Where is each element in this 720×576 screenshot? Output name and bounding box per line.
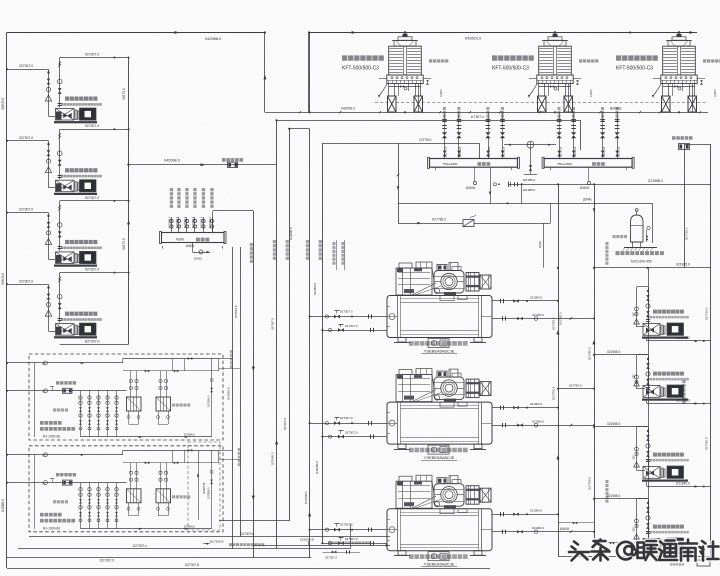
chiller CH-2 legs xyxy=(398,444,406,449)
HXU-1 bottom collect line xyxy=(81,436,212,438)
pump CHWP-1 discharge header xyxy=(646,339,648,341)
chiller CH-2 compressor/motor top assembly xyxy=(396,375,432,402)
cooling water pump CWP-1 branch xyxy=(7,69,49,71)
chilled pump suction manifold xyxy=(648,268,650,538)
pump CWP-1 discharge riser with valves xyxy=(59,58,61,108)
heating supply return corner into HXU-2 xyxy=(219,520,289,522)
chiller CH-1 label xyxy=(409,341,414,346)
distributor header 750xL2800 xyxy=(430,159,518,168)
feeder drop vertical x398 xyxy=(398,143,400,223)
label cooling water pump (4) xyxy=(65,312,69,316)
cooling water pump CWP-3 branch xyxy=(7,212,49,214)
tower CT-3 under-basin piping xyxy=(663,86,695,88)
pump CHWP-1 gauge riser xyxy=(637,286,649,288)
chilled water pump CHWP-4 suction branch xyxy=(594,498,648,500)
expansion tank riser xyxy=(652,203,654,243)
pump CWP-2 discharge header xyxy=(60,129,129,131)
tower CT-2 labels xyxy=(492,55,497,60)
tower CT-1 outlet pipe xyxy=(418,84,420,113)
short link y128.75 xyxy=(289,128,309,130)
HXU-2 HX steam inlets xyxy=(160,463,162,489)
tower CT-1 basin xyxy=(387,75,423,84)
pump CHWP-4 suction riser valves xyxy=(648,499,650,543)
label cooling water pump (1) xyxy=(65,97,69,101)
cooling water pump CWP-1 unit xyxy=(54,121,97,123)
label cooling water pump (3) xyxy=(65,240,69,244)
heat exchanger unit HXU-1 dashed enclosure xyxy=(29,354,223,440)
right main riser B xyxy=(594,184,596,556)
pump CWP-1 discharge header xyxy=(60,57,129,59)
chilled water pump CHWP-2 suction branch xyxy=(594,354,648,356)
header stub valve jsq2 xyxy=(573,137,575,159)
pump CWP-4 discharge riser with valves xyxy=(59,273,61,323)
header stub valve fsq3 xyxy=(488,137,490,159)
pump CWP-3 discharge header xyxy=(60,200,129,202)
chiller CH-1 oil unit xyxy=(428,339,449,348)
HXU-1 HX steam inlets xyxy=(130,371,132,397)
cooling water pump collector riser xyxy=(128,58,130,345)
pump CHWP-2 gauge riser xyxy=(637,354,649,356)
HXU-2 plate heat exchangers xyxy=(127,489,142,503)
rotated pipe labels xyxy=(273,240,276,243)
cooling tower CT-2 xyxy=(554,31,556,33)
steam pipe vertical xyxy=(253,211,255,557)
chiller CH-2 evaporator/condenser shell xyxy=(387,402,492,444)
cooling tower CT-1 xyxy=(404,31,406,33)
header stub valve fsq4 xyxy=(502,137,504,159)
HXU-1 outlet pipes to risers xyxy=(219,358,233,360)
label chilled water pump (2) xyxy=(653,372,657,376)
AC return main vertical x276.6 xyxy=(276,120,278,549)
pressurization line DN4 xyxy=(398,203,653,205)
chilled water pump CHWP-4 unit xyxy=(642,552,688,554)
pump CHWP-3 suction riser valves xyxy=(648,427,650,471)
HXU-1 labels xyxy=(40,421,44,425)
tank labels xyxy=(613,235,616,238)
bottom right device xyxy=(558,556,704,558)
chiller CH-2 evaporator outlet pipe xyxy=(322,436,387,438)
chiller CH-1 condenser outlet to riser xyxy=(492,300,558,302)
label cooling water pump (2) xyxy=(65,168,69,172)
small bottom-right fittings near chiller 3 xyxy=(558,522,594,524)
HXU-2 outlet pipes to risers xyxy=(219,450,233,452)
main return pipe (top left, 0426BL0) xyxy=(7,32,265,34)
chiller CH-1 condenser inlet xyxy=(492,318,594,320)
condenser side main (vertical) x309.6 xyxy=(309,33,311,113)
drain under headers xyxy=(474,167,476,181)
header stub valve jsq4 xyxy=(617,137,619,159)
chiller CH-3 legs xyxy=(398,551,406,556)
label chilled water pump (4) xyxy=(653,525,657,529)
tower CT-2 under-basin piping xyxy=(539,86,571,88)
condenser water supply line 042008.0 to chillers xyxy=(127,164,277,166)
cooling water pump CWP-4 branch xyxy=(7,284,49,286)
chilled return main x322.3 xyxy=(322,143,324,543)
steam supply drop to heat exchangers xyxy=(213,210,253,212)
pump CHWP-2 discharge header xyxy=(646,401,648,404)
chilled water pump CHWP-3 suction branch xyxy=(594,426,648,428)
electronic descaler on 042008.0 xyxy=(222,158,226,162)
watermark toutiao@nuantongnanshe xyxy=(569,540,719,561)
left main riser xyxy=(6,33,8,569)
steam branch 3 xyxy=(186,217,188,233)
label chilled water pump (1) xyxy=(653,310,657,314)
pump CWP-4 discharge header xyxy=(60,272,129,274)
tower area ground dashed line xyxy=(375,102,708,104)
collector header 750xL2800 xyxy=(544,159,632,168)
steam branch 4 xyxy=(194,217,196,233)
HXU-1 plate heat exchangers xyxy=(127,397,142,411)
HXU-1 top water line with GS tag xyxy=(7,362,123,364)
chilled water pump CHWP-2 unit xyxy=(642,399,688,401)
HXU-2 steam piping upper right xyxy=(123,462,219,464)
junction dots main xyxy=(264,31,266,33)
pump CWP-3 suction riser with valves xyxy=(48,213,50,260)
steam distributor (4300 fen-qi-gang) xyxy=(162,233,225,243)
cooling water pump CWP-2 branch xyxy=(7,140,49,142)
far right riser xyxy=(710,144,712,557)
chiller CH-1 evaporator inlet pipe xyxy=(310,316,387,318)
chiller CH-3 evaporator inlet pipe xyxy=(310,529,387,531)
header stub valve fsq2 xyxy=(458,137,460,159)
diaphragm expansion tank NXC-600-450 xyxy=(631,215,644,242)
chiller CH-3 oil unit xyxy=(428,552,449,561)
heat exchanger unit HXU-2 dashed enclosure xyxy=(29,446,223,532)
AC supply vertical x289.3 xyxy=(289,129,291,521)
HXU-1 HX steam inlets xyxy=(160,371,162,397)
balancing line with regulating valve xyxy=(398,223,550,225)
chiller CH-2 oil unit xyxy=(428,445,449,454)
HXU-1 second line with descaler xyxy=(44,389,48,393)
bottom return line 3 xyxy=(7,557,311,559)
bottom header under pump 4 xyxy=(60,344,129,346)
tower CT-2 outlet pipe xyxy=(568,84,570,113)
condensate note line xyxy=(253,545,390,547)
chiller CH-1 evaporator/condenser shell xyxy=(387,296,492,338)
ticks on basin line xyxy=(299,111,301,113)
tower CT-3 legs xyxy=(662,84,664,97)
chiller CH-1 evaporator outlet pipe xyxy=(322,330,387,332)
pump CHWP-1 suction riser valves xyxy=(648,287,650,328)
chilled water pump CHWP-3 unit xyxy=(642,480,688,482)
branch line 021985.0 upper xyxy=(593,208,596,212)
pump CWP-3 discharge riser with valves xyxy=(59,201,61,251)
chiller CH-2 condenser inlet xyxy=(492,425,594,427)
steam branch 1 xyxy=(171,217,173,233)
chiller CH-2 evaporator inlet pipe xyxy=(310,423,387,425)
HXU-2 circulating valve manifold xyxy=(80,483,82,529)
tower CT-1 labels xyxy=(342,55,347,60)
chilled water pump CHWP-1 unit xyxy=(642,337,688,339)
chiller3 lower-left extra piping xyxy=(322,552,360,554)
right main riser A xyxy=(558,184,560,556)
cross connector between risers xyxy=(558,388,594,390)
pump CHWP-3 discharge header xyxy=(646,482,648,487)
tower CT-1 body with louvers xyxy=(389,46,422,75)
bottom return line 2 xyxy=(18,548,350,550)
steam branch 2 xyxy=(178,217,180,233)
electronic descaler right xyxy=(672,136,676,140)
pump CWP-1 suction riser with valves xyxy=(48,69,50,116)
pump CWP-2 discharge riser with valves xyxy=(59,129,61,179)
pump CWP-2 suction riser with valves xyxy=(48,141,50,188)
chiller CH-3 evaporator outlet pipe xyxy=(322,543,387,545)
cooling water pump CWP-4 unit xyxy=(54,336,97,338)
tower CT-3 body with louvers xyxy=(663,46,696,75)
pump CHWP-2 suction riser valves xyxy=(648,355,650,390)
tower CT-2 legs xyxy=(538,84,540,97)
HX right-side verticals xyxy=(232,247,234,549)
tower CT-1 under-basin piping xyxy=(389,86,421,88)
pump CHWP-3 gauge riser xyxy=(637,426,649,428)
bottom return line 1 xyxy=(29,536,390,538)
HXU-2 bottom collect line xyxy=(81,528,212,530)
steam branch 5 xyxy=(203,217,205,233)
tower supply top line xyxy=(309,32,697,34)
HXU-1 steam piping upper right xyxy=(123,370,219,372)
tower CT-1 legs xyxy=(388,84,390,97)
chiller CH-3 condenser outlet to riser xyxy=(492,514,558,516)
pump CHWP-4 discharge header xyxy=(646,554,648,557)
feeder to distributor header xyxy=(322,143,479,145)
cooling tower CT-3 xyxy=(678,31,680,33)
chiller CH-1 compressor/motor top assembly xyxy=(396,268,432,295)
drop from header A to DN4 xyxy=(490,167,492,203)
right riser x684 xyxy=(684,144,686,268)
tower CT-2 body with louvers xyxy=(539,46,572,75)
steam branch 6 xyxy=(212,217,214,233)
pump CWP-4 suction riser with valves xyxy=(48,284,50,331)
label chilled water pump (3) xyxy=(653,453,657,457)
riser from return to basin line xyxy=(264,33,266,113)
chiller CH-2 label xyxy=(409,448,414,453)
HXU-2 labels xyxy=(40,513,44,517)
chiller CH-3 compressor/motor top assembly xyxy=(396,481,432,508)
HXU-2 HX steam inlets xyxy=(130,463,132,489)
pump CHWP-4 gauge riser xyxy=(637,498,649,500)
header stub valve jsq3 xyxy=(602,137,604,159)
feeder to collector header xyxy=(277,120,581,122)
tower CT-2 basin xyxy=(537,75,573,84)
tower CT-3 basin xyxy=(661,75,697,84)
inner dashed sub-box right of HXU-2 xyxy=(188,442,220,530)
header stub valve jsq1 xyxy=(559,137,561,159)
cooling water pump CWP-3 unit xyxy=(54,265,97,267)
chilled supply header line 021985.0 xyxy=(508,184,711,186)
HXU-2 top water line with GS tag xyxy=(7,454,123,456)
chiller CH-3 condenser inlet xyxy=(492,531,594,533)
steam distributor drain / bypass DN50 xyxy=(192,243,194,253)
HXU-2 second line with descaler xyxy=(44,481,48,485)
rotated main labels right xyxy=(682,380,685,383)
tower basin collect line xyxy=(265,112,708,114)
chiller CH-3 label xyxy=(409,554,414,559)
tower CT-3 outlet pipe xyxy=(692,84,694,113)
bottom line 4 xyxy=(7,568,490,570)
tower CT-3 labels xyxy=(616,55,621,60)
drop from balancing line xyxy=(543,223,545,268)
cooling water pump CWP-2 unit xyxy=(54,193,97,195)
chiller CH-2 condenser outlet to riser xyxy=(492,407,558,409)
HXU-1 circulating valve manifold xyxy=(80,391,82,437)
header stub valve fsq1 xyxy=(444,137,446,159)
bridge pipe between headers with meter xyxy=(504,144,556,146)
chiller CH-3 evaporator/condenser shell xyxy=(387,509,492,551)
chiller CH-1 legs xyxy=(398,338,406,343)
